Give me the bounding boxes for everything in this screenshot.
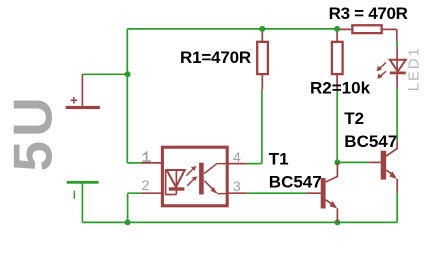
- svg-text:T2: T2: [344, 109, 364, 128]
- svg-text:4: 4: [233, 149, 241, 165]
- node T1 collector junction: [334, 159, 340, 165]
- wire R3 to LED1: [396, 41, 398, 47]
- battery B1 plus sign: [71, 97, 78, 104]
- svg-text:2: 2: [142, 177, 150, 193]
- transistor T1: [307, 162, 338, 222]
- battery B1 positive pin: [81, 74, 83, 106]
- resistor R2: [332, 29, 343, 89]
- optocoupler light arrows: [186, 166, 197, 186]
- svg-text:BC547: BC547: [344, 132, 397, 151]
- wire opto pin3 to T1 base: [247, 192, 307, 194]
- node battery plus junction: [125, 71, 131, 77]
- LED LED1: [377, 47, 406, 89]
- node R1 top junction: [259, 26, 265, 32]
- optocoupler pin 2: [141, 192, 164, 194]
- svg-text:LED1: LED1: [405, 46, 422, 91]
- wire opto pin1 net: [127, 162, 142, 164]
- svg-text:5U: 5U: [1, 93, 63, 171]
- pin number 1: [142, 152, 151, 161]
- svg-text:R3 = 470R: R3 = 470R: [329, 4, 408, 23]
- svg-text:T1: T1: [269, 150, 289, 169]
- battery B1 minus sign: [73, 191, 75, 199]
- wire T2 emitter down: [396, 193, 398, 222]
- battery B1 positive plate: [66, 106, 100, 109]
- svg-text:3: 3: [233, 178, 241, 194]
- wire T2 base net: [337, 161, 368, 163]
- optocoupler pin 3: [226, 192, 247, 194]
- wire top rail: [127, 28, 337, 30]
- optocoupler OK1 box: [162, 147, 227, 206]
- resistor R3: [340, 25, 397, 40]
- resistor R1: [257, 29, 268, 90]
- optocoupler pin 4: [226, 163, 247, 165]
- svg-text:BC547: BC547: [269, 173, 322, 192]
- wire R2 bottom net: [336, 89, 338, 162]
- wire battery plus: [82, 73, 127, 75]
- wire LED1 to T2 collector: [396, 88, 398, 141]
- node R2 top junction: [334, 26, 340, 32]
- node bottom left junction: [125, 219, 131, 225]
- battery B1 negative plate: [67, 181, 99, 184]
- transistor T2: [368, 141, 397, 193]
- wire opto pin4 to R1: [247, 90, 262, 164]
- optocoupler phototransistor: [199, 163, 226, 195]
- optocoupler pin 1: [141, 162, 164, 164]
- svg-text:R2=10k: R2=10k: [310, 79, 371, 98]
- optocoupler internal LED: [166, 170, 185, 195]
- svg-text:R1=470R: R1=470R: [180, 48, 251, 67]
- node bottom T1 emitter junction: [334, 219, 340, 225]
- wire left rail: [126, 29, 128, 163]
- wire battery minus down: [81, 184, 83, 223]
- wire bottom rail: [82, 221, 397, 223]
- wire opto pin2 net: [128, 193, 141, 222]
